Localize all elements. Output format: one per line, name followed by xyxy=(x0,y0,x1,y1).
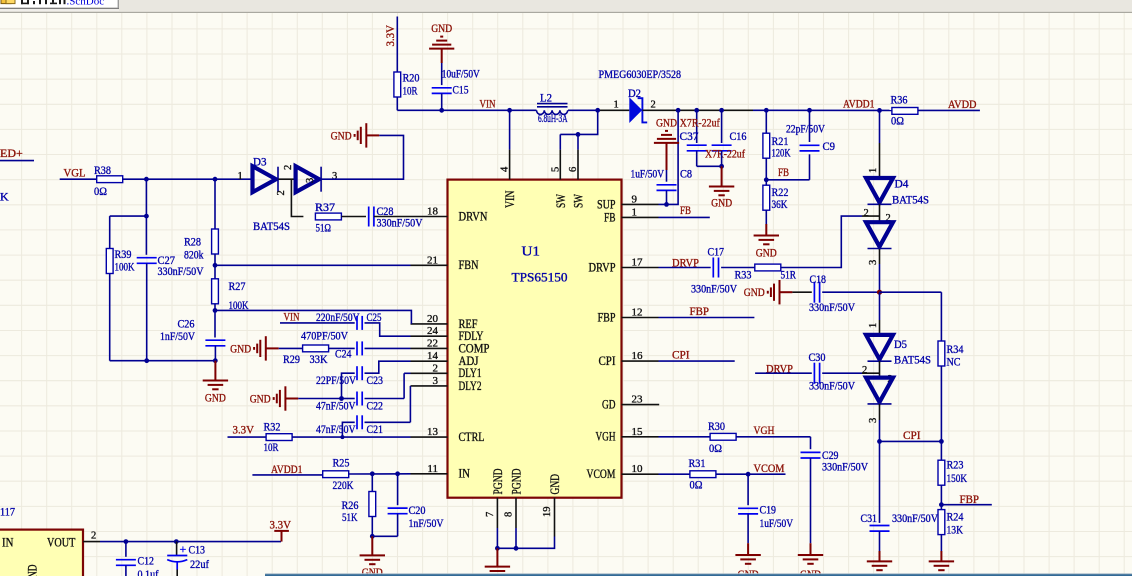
resistor R24 xyxy=(938,510,945,535)
pin stub xyxy=(411,323,448,325)
wire C31 down xyxy=(879,531,881,551)
svg-text:8: 8 xyxy=(504,512,515,517)
svg-text:1nF/50V: 1nF/50V xyxy=(160,329,195,343)
capacitor C25 xyxy=(357,316,362,330)
svg-text:GND: GND xyxy=(656,117,677,129)
wire FBN to pin 21 xyxy=(215,264,411,266)
capacitor C8 xyxy=(657,185,677,191)
GND stem xyxy=(371,536,373,555)
diode D4 second half xyxy=(866,222,893,248)
svg-text:C24: C24 xyxy=(335,347,352,361)
ground below PGND pins xyxy=(485,567,510,576)
ground below C37/C16 xyxy=(709,187,734,196)
resistor R27 xyxy=(212,279,219,304)
wire AVDD1 down xyxy=(879,110,881,143)
regulator U? body xyxy=(0,530,83,576)
GND stem xyxy=(721,166,723,186)
svg-text:PMEG6030EP/3528: PMEG6030EP/3528 xyxy=(599,67,682,81)
wire C20 down xyxy=(397,514,399,537)
svg-text:C23: C23 xyxy=(367,373,384,387)
capacitor C13 (polarized) xyxy=(167,556,187,570)
svg-text:C22: C22 xyxy=(367,398,384,412)
junction C23/C22/GND xyxy=(339,396,344,401)
junction R26 top xyxy=(370,471,375,476)
wire VGH to C29 xyxy=(810,437,812,449)
bottom panel edge xyxy=(265,573,1132,574)
ground below R24 xyxy=(929,561,954,570)
wire rail to C37 xyxy=(696,110,698,143)
capacitor C30 xyxy=(814,363,819,384)
svg-text:D4: D4 xyxy=(895,177,909,191)
svg-text:SW: SW xyxy=(572,194,586,208)
diode D3 second half xyxy=(296,166,322,192)
svg-text:SUP: SUP xyxy=(597,197,616,211)
wire D4 pin2 xyxy=(862,215,880,217)
diode D2 PMEG6030EP xyxy=(629,97,647,123)
capacitor C18 xyxy=(814,282,819,303)
svg-text:22pF/50V: 22pF/50V xyxy=(786,122,825,136)
tab title 背光驱动.SchDoc xyxy=(21,0,66,4)
svg-text:0.1uf: 0.1uf xyxy=(138,567,159,576)
pin 7 stub xyxy=(496,498,498,528)
junction CPI left xyxy=(877,439,882,444)
svg-text:C9: C9 xyxy=(823,139,836,153)
resistor R34 xyxy=(938,341,945,366)
junction C8/SUP xyxy=(664,202,669,207)
svg-text:VCOM: VCOM xyxy=(587,467,616,481)
junction pin8 xyxy=(514,546,519,551)
svg-text:3.3V: 3.3V xyxy=(270,518,292,532)
svg-text:2: 2 xyxy=(651,100,656,111)
resistor R36 xyxy=(892,108,918,115)
wire R36 to AVDD xyxy=(918,109,980,111)
wire node to C22 xyxy=(342,398,355,400)
wire col1 to C27 xyxy=(145,216,147,255)
svg-text:C18: C18 xyxy=(810,272,827,286)
svg-text:22uf: 22uf xyxy=(190,557,209,571)
capacitor C20 xyxy=(388,508,408,514)
junction C12 xyxy=(124,539,129,544)
wire pin7 down xyxy=(496,528,498,548)
capacitor C26 xyxy=(205,340,225,346)
svg-text:K: K xyxy=(0,190,9,204)
wire to pin 6 xyxy=(577,134,579,149)
svg-text:C25: C25 xyxy=(367,310,382,324)
wire R27 to node xyxy=(214,304,216,311)
wire VGL col down xyxy=(145,179,147,216)
ground left of D3 loop xyxy=(355,123,380,147)
svg-text:DLY2: DLY2 xyxy=(459,379,482,393)
wire to C20 xyxy=(397,474,399,505)
resistor R31 xyxy=(690,471,716,478)
svg-text:CPI: CPI xyxy=(672,348,690,362)
svg-text:2: 2 xyxy=(276,190,287,195)
junction C15/VIN rail xyxy=(439,108,444,113)
svg-text:C16: C16 xyxy=(730,129,747,143)
svg-text:PGND: PGND xyxy=(491,469,505,495)
wire pin 14 to C23 xyxy=(365,361,411,373)
wire pin 2 gap xyxy=(404,372,410,374)
wire C37-C16 bottoms xyxy=(697,165,722,167)
svg-text:1uF/50V: 1uF/50V xyxy=(631,166,665,180)
svg-text:0Ω: 0Ω xyxy=(690,478,703,492)
svg-text:AVDD1: AVDD1 xyxy=(843,96,875,110)
junction VCOM/C19 xyxy=(746,472,751,477)
svg-text:R28: R28 xyxy=(184,235,201,249)
wire pin19 to pin8 xyxy=(516,537,555,549)
wire FB node to R22 xyxy=(765,180,767,186)
resistor R38 xyxy=(97,176,123,183)
junction AVDD1/D4 xyxy=(877,108,882,113)
svg-text:VIN: VIN xyxy=(284,310,300,324)
op-amp U1 TPS65150 body xyxy=(448,180,622,498)
svg-text:VIN: VIN xyxy=(503,191,517,209)
wire L2 to D2 xyxy=(568,109,598,111)
svg-text:R36: R36 xyxy=(891,93,908,107)
svg-text:2: 2 xyxy=(864,208,869,219)
pin stub xyxy=(622,360,659,362)
wire D4 to node xyxy=(879,264,881,292)
svg-text:X7R-22uf: X7R-22uf xyxy=(705,147,745,161)
svg-text:R32: R32 xyxy=(264,420,281,434)
svg-text:GND: GND xyxy=(26,565,40,576)
wire to C12 xyxy=(125,542,127,557)
resistor R33 xyxy=(755,264,781,271)
svg-text:BAT54S: BAT54S xyxy=(894,353,931,367)
svg-text:3: 3 xyxy=(868,260,879,265)
D2 anode lead xyxy=(598,109,630,111)
svg-text:GND: GND xyxy=(230,343,251,355)
power port 3.3V bar xyxy=(274,530,289,532)
capacitor C15 xyxy=(432,88,452,94)
junction CPI right xyxy=(939,439,944,444)
ground below R22 xyxy=(754,236,779,245)
svg-text:10uF/50V: 10uF/50V xyxy=(442,67,480,81)
wire R33 to D4 tap xyxy=(781,216,862,267)
wire pin10 to R31 xyxy=(659,473,691,475)
svg-text:VGH: VGH xyxy=(754,423,775,437)
wire C26 down xyxy=(214,346,216,361)
svg-text:3.3V: 3.3V xyxy=(233,423,255,437)
svg-text:GND: GND xyxy=(331,130,352,142)
svg-text:R24: R24 xyxy=(947,510,964,524)
wire R26 down xyxy=(371,517,373,537)
resistor R20 xyxy=(394,72,401,97)
svg-text:IN: IN xyxy=(2,536,14,550)
wire AVDD rail xyxy=(753,109,892,111)
svg-text:0Ω: 0Ω xyxy=(94,184,107,198)
resistor R30 xyxy=(710,433,736,440)
svg-text:C37: C37 xyxy=(680,129,699,143)
pin stub xyxy=(622,216,659,218)
svg-text:R25: R25 xyxy=(333,456,350,470)
wire 3.3V to R20 xyxy=(396,17,398,73)
svg-text:C30: C30 xyxy=(809,350,826,364)
svg-text:DRVP: DRVP xyxy=(589,260,616,274)
ground below C29 xyxy=(798,555,823,564)
svg-text:330nF/50V: 330nF/50V xyxy=(822,460,868,474)
ground left of C18 xyxy=(768,280,793,304)
svg-text:51R: 51R xyxy=(781,268,797,282)
ground below C19 xyxy=(735,555,760,564)
wire D3 tap to R37 xyxy=(291,179,303,216)
svg-text:33K: 33K xyxy=(310,352,328,366)
pin stub xyxy=(411,264,448,266)
wire GND to C15 xyxy=(441,63,443,85)
svg-text:220K: 220K xyxy=(333,478,354,492)
wire R25 to pin 11 xyxy=(349,473,411,475)
svg-text:R27: R27 xyxy=(229,279,246,293)
capacitor C22 xyxy=(357,392,362,406)
wire R31 to VCOM xyxy=(716,473,786,475)
wire C25 to pin 24 xyxy=(365,323,411,336)
pin stub xyxy=(622,473,659,475)
GND stem xyxy=(747,543,749,555)
pin 8 stub xyxy=(515,498,517,528)
svg-text:13K: 13K xyxy=(947,523,964,537)
resistor R25 xyxy=(323,471,349,478)
wire CPI to R23 xyxy=(940,441,942,460)
junction C26/bottom rail xyxy=(213,358,218,363)
svg-text:U1: U1 xyxy=(522,244,541,259)
resistor R23 xyxy=(938,460,945,485)
svg-text:GND: GND xyxy=(548,474,562,495)
D5 pin3 lead xyxy=(879,404,881,420)
svg-text:19: 19 xyxy=(542,507,553,518)
svg-text:VGL: VGL xyxy=(64,166,86,180)
svg-text:DRVP: DRVP xyxy=(672,256,699,270)
wire pin7-pin8 xyxy=(497,547,516,549)
junction pin7 xyxy=(495,546,500,551)
wire pin8 down xyxy=(515,528,517,548)
pin stub xyxy=(559,150,561,180)
wire D3 cathode to GND xyxy=(322,135,404,179)
wire DRVP to C30 xyxy=(755,372,812,374)
svg-text:51K: 51K xyxy=(342,510,358,524)
capacitor C29 xyxy=(801,452,821,458)
wire to R26 xyxy=(371,474,373,492)
wire D5 to CPI xyxy=(879,420,881,441)
wire down to R39 xyxy=(109,216,111,249)
wire R37 to C28 xyxy=(341,216,366,218)
wire FBN to R27 xyxy=(214,265,216,279)
pin 2 stub xyxy=(83,541,100,543)
diode D4 (BAT54S) first half xyxy=(866,178,893,204)
svg-text:FB: FB xyxy=(604,210,616,224)
resistor R39 xyxy=(106,249,113,274)
wire R32 to pin 13 xyxy=(292,436,410,438)
wire R21 to FB node xyxy=(765,158,767,180)
ground above C8 xyxy=(654,131,679,143)
svg-text:NC: NC xyxy=(947,355,961,369)
svg-text:330nF/50V: 330nF/50V xyxy=(377,216,423,230)
junction rail/R21 xyxy=(764,108,769,113)
GND stem to C8 xyxy=(666,143,668,170)
wire C21 to 3.3V row xyxy=(342,422,354,437)
pin 19 stub xyxy=(554,498,556,537)
pin stub xyxy=(622,267,659,269)
junction VGL/col2 xyxy=(213,177,218,182)
wire CPI to C31 xyxy=(879,441,881,523)
pin stub xyxy=(411,436,448,438)
wire R39 to bottom rail xyxy=(109,274,111,361)
wire C22 to DLY1 branch xyxy=(365,398,405,400)
svg-text:10R: 10R xyxy=(264,440,279,454)
svg-text:FBN: FBN xyxy=(459,258,479,272)
GND stem xyxy=(810,543,812,555)
wire C30 to D5 xyxy=(822,372,862,374)
junction rail/C16 xyxy=(719,108,724,113)
svg-text:R20: R20 xyxy=(403,71,420,85)
svg-text:GND: GND xyxy=(744,287,765,299)
wire C27 down xyxy=(146,263,148,360)
svg-text:GND: GND xyxy=(205,393,226,405)
svg-text:820k: 820k xyxy=(184,248,204,262)
D5 pin1 lead xyxy=(879,320,881,335)
junction C16/GND xyxy=(719,164,724,169)
svg-text:3: 3 xyxy=(868,418,879,423)
svg-text:X7R-22uf: X7R-22uf xyxy=(680,116,720,130)
svg-text:PGND: PGND xyxy=(510,469,524,495)
svg-text:C17: C17 xyxy=(708,245,725,259)
wire FBP to R24 xyxy=(940,505,942,510)
wire R23 to FBP xyxy=(940,485,942,505)
svg-text:FBP: FBP xyxy=(690,304,710,318)
svg-text:.SchDoc: .SchDoc xyxy=(67,0,105,8)
3.3V stem xyxy=(281,531,283,542)
svg-text:C21: C21 xyxy=(367,422,384,436)
junction col1 xyxy=(144,214,149,219)
capacitor C27 xyxy=(137,258,157,264)
svg-text:VOUT: VOUT xyxy=(47,536,76,550)
GND stem xyxy=(496,548,498,566)
wire R24 down xyxy=(940,535,942,551)
ground below C31 xyxy=(867,561,892,570)
resistor R29 xyxy=(303,345,329,352)
svg-text:1uF/50V: 1uF/50V xyxy=(760,516,794,530)
svg-text:22PF/50V: 22PF/50V xyxy=(316,373,356,387)
resistor R32 xyxy=(266,434,292,441)
svg-text:CTRL: CTRL xyxy=(459,430,485,444)
svg-text:R30: R30 xyxy=(708,419,725,433)
resistor R26 xyxy=(369,492,376,517)
ground left of C22 xyxy=(274,386,299,410)
svg-text:DRVN: DRVN xyxy=(459,209,488,223)
svg-text:117: 117 xyxy=(0,505,15,519)
junction rail/SUP drop xyxy=(676,108,681,113)
wire VIN to C25 xyxy=(280,322,355,324)
wire bottom rail xyxy=(110,360,216,362)
svg-text:R29: R29 xyxy=(283,352,300,366)
wire C8 to SUP xyxy=(666,190,668,204)
ground left of R29 xyxy=(254,336,279,360)
svg-text:C19: C19 xyxy=(760,503,777,517)
wire C37 down xyxy=(696,151,698,167)
svg-text:0Ω: 0Ω xyxy=(891,114,904,128)
pin stub xyxy=(411,473,448,475)
svg-text:100K: 100K xyxy=(115,260,135,274)
svg-text:0Ω: 0Ω xyxy=(709,441,722,455)
pin stub xyxy=(622,203,659,205)
svg-text:GD: GD xyxy=(602,398,616,412)
svg-text:+: + xyxy=(180,542,187,556)
svg-text:47nF/50V: 47nF/50V xyxy=(316,398,356,412)
wire LED+ xyxy=(0,160,34,162)
diode D5 (BAT54S) first half xyxy=(866,335,893,361)
svg-text:2: 2 xyxy=(862,365,867,376)
svg-text:1: 1 xyxy=(614,100,619,111)
wire to pin 4 xyxy=(509,110,511,149)
wire GND to C18 xyxy=(792,291,811,293)
svg-text:R23: R23 xyxy=(947,458,964,472)
svg-text:L2: L2 xyxy=(540,91,552,105)
junction R27/REF wire xyxy=(213,308,218,313)
svg-text:AVDD: AVDD xyxy=(948,97,977,111)
junction C27/bottom rail xyxy=(144,358,149,363)
resistor R37 xyxy=(315,213,341,220)
wire C18 to D4/D5 node xyxy=(822,291,879,293)
junction SW pins xyxy=(576,132,581,137)
svg-text:C20: C20 xyxy=(409,503,426,517)
svg-text:VCOM: VCOM xyxy=(754,461,785,475)
diode D3 (BAT54S) first half xyxy=(253,166,279,192)
junction R26/GND xyxy=(370,534,375,539)
wire rail to C16 xyxy=(721,110,723,143)
svg-text:AVDD1: AVDD1 xyxy=(271,462,303,476)
GND stem xyxy=(940,551,942,561)
svg-text:GND: GND xyxy=(756,248,777,260)
wire CPI pin16 xyxy=(659,360,735,362)
capacitor C21 xyxy=(357,415,362,429)
svg-text:220nF/50V: 220nF/50V xyxy=(316,310,360,324)
svg-text:C8: C8 xyxy=(680,166,692,180)
svg-text:D2: D2 xyxy=(628,86,641,100)
wire CPI xyxy=(880,440,942,442)
wire pin15 to R30 xyxy=(659,436,711,438)
wire SW branch xyxy=(560,110,597,134)
D4 pin3 lead xyxy=(879,249,881,264)
svg-text:FBP: FBP xyxy=(598,310,616,324)
svg-text:36K: 36K xyxy=(772,197,788,211)
wire C29 down xyxy=(810,458,812,543)
wire R22 down xyxy=(765,210,767,224)
svg-text:3: 3 xyxy=(305,178,316,183)
junction C20 top xyxy=(395,471,400,476)
svg-text:2: 2 xyxy=(91,531,96,542)
svg-text:FB: FB xyxy=(680,203,691,217)
svg-text:470PF/50V: 470PF/50V xyxy=(301,329,348,343)
wire C28 to pin 18 xyxy=(374,216,411,218)
junction FBN xyxy=(213,263,218,268)
svg-text:C15: C15 xyxy=(453,83,469,97)
wire C12 down xyxy=(125,565,127,576)
svg-text:D5: D5 xyxy=(894,337,907,351)
wire FB node to C9 xyxy=(766,179,809,181)
pin stub xyxy=(411,216,448,218)
capacitor C9 xyxy=(800,145,820,151)
wire rail to SUP pin9 xyxy=(659,110,679,204)
junction C21/CTRL xyxy=(340,435,344,439)
wire node to C26 xyxy=(214,310,216,337)
svg-text:6.8uH-3A: 6.8uH-3A xyxy=(538,111,568,125)
svg-text:330nF/50V: 330nF/50V xyxy=(809,379,855,393)
wire D5 pin2 xyxy=(862,372,880,374)
svg-text:1: 1 xyxy=(868,168,879,173)
diode D5 second half xyxy=(866,378,893,404)
svg-text:3.3V: 3.3V xyxy=(383,25,397,47)
wire to R34 xyxy=(940,292,942,341)
svg-text:C12: C12 xyxy=(138,554,155,568)
